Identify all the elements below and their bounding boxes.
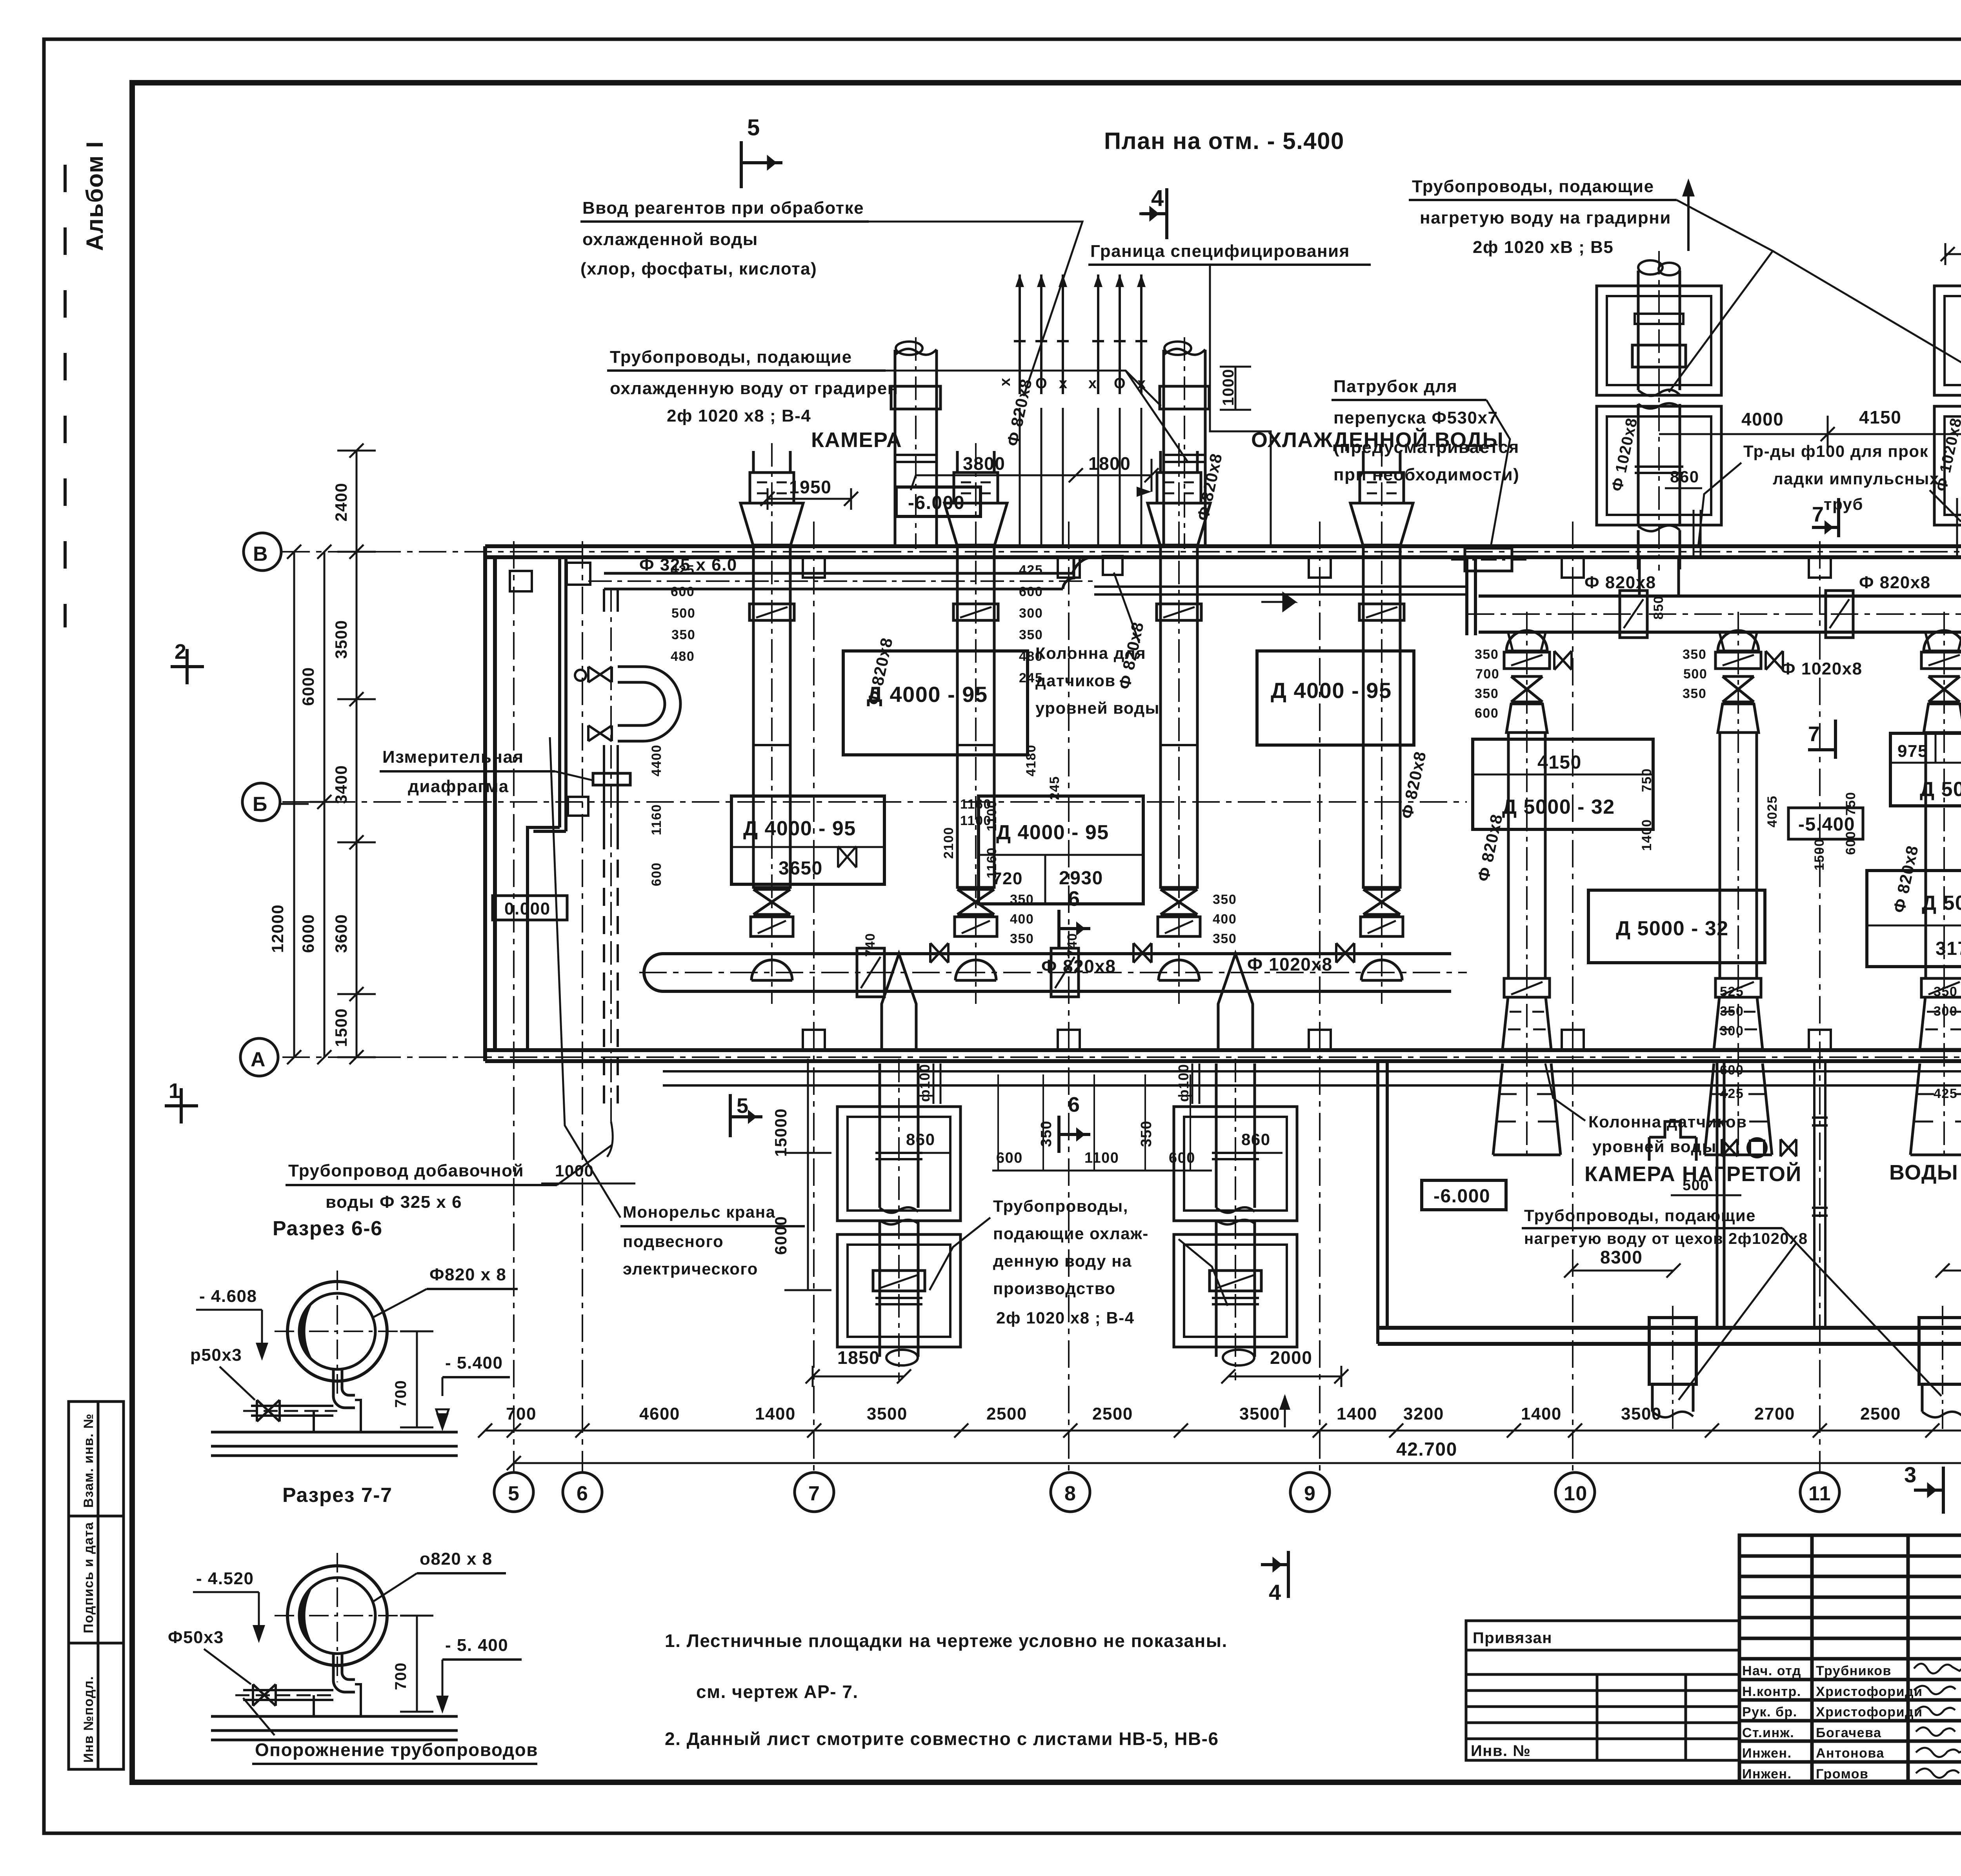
svg-text:- 4.520: - 4.520 [196,1569,254,1588]
column circles [494,1472,1961,1512]
small box on pipe [568,797,588,816]
svg-text:2. Данный лист смотрите сов: 2. Данный лист смотрите совместно с лист… [665,1729,1219,1749]
overflow pipe below bottom wall [663,1071,1961,1085]
svg-text:600: 600 [996,1150,1023,1166]
svg-text:Д 5000 - 32: Д 5000 - 32 [1502,796,1615,818]
svg-text:Ф 1020х8: Ф 1020х8 [1247,954,1333,974]
flow arrow top cold [1261,593,1295,611]
svg-text:6: 6 [1068,887,1081,911]
svg-text:600: 600 [1169,1150,1195,1166]
svg-text:х: х [1137,375,1146,392]
pump 3 [1148,451,1210,980]
svg-text:6: 6 [577,1482,588,1505]
shop pipe stub 1 [1649,1318,1696,1417]
svg-text:3175: 3175 [1936,938,1961,959]
svg-text:х: х [1059,375,1068,392]
svg-text:5: 5 [508,1482,520,1505]
GRID CENTERLINES [282,522,1961,1472]
vertical dim 15000 6000 left of risers [784,1059,831,1290]
svg-text:1. Лестничные площадки на: 1. Лестничные площадки на чертеже условн… [665,1631,1228,1651]
LEFT DIMENSION CHAINS [294,451,357,1057]
svg-text:350: 350 [1683,686,1706,701]
svg-text:Ф 1020х8: Ф 1020х8 [1781,659,1863,678]
pump R3 [1910,631,1961,1155]
svg-text:6: 6 [1068,1093,1081,1116]
section 6-6 floor [211,1432,458,1456]
riser assembly A [1597,260,1721,569]
svg-text:Н.контр.: Н.контр. [1742,1684,1801,1699]
svg-text:1800: 1800 [1088,453,1131,474]
svg-text:1500: 1500 [1812,838,1827,871]
pump 1 [740,451,803,980]
elevation box -5.400 [1788,808,1863,839]
valves on loop [588,667,612,682]
suction manifold hot hall [1479,596,1961,632]
svg-text:-6.000: -6.000 [1433,1186,1490,1207]
svg-text:860: 860 [1670,467,1699,486]
svg-text:Ф 820х8: Ф 820х8 [1041,956,1116,976]
svg-text:1850: 1850 [837,1347,880,1368]
svg-text:4025: 4025 [1765,795,1780,827]
tee from top boxpipes [1639,557,1961,596]
wall pilasters bottom [803,1030,1961,1050]
svg-text:Д 4000 - 95: Д 4000 - 95 [996,821,1109,844]
left chamber inner wall [528,557,566,1050]
svg-text:4: 4 [1269,1580,1282,1605]
pump centerlines hot [1527,612,1961,1161]
svg-text:Ст.инж.: Ст.инж. [1742,1725,1794,1740]
svg-text:5: 5 [747,115,760,140]
leader truboprovody cold [886,371,1188,463]
svg-text:ОХЛАЖДЕННОЙ ВОДЫ: ОХЛАЖДЕННОЙ ВОДЫ [1251,428,1504,452]
svg-text:ф100: ф100 [1175,1063,1192,1102]
svg-text:Граница специфицирования: Граница специфицирования [1090,242,1350,261]
elevation box -6.000 top [896,487,980,516]
riser assembly B [1934,260,1961,569]
svg-text:8: 8 [1064,1482,1076,1505]
sensors column square [1103,556,1122,575]
svg-text:350: 350 [1934,984,1957,999]
svg-text:Д 5000 - 32: Д 5000 - 32 [1920,778,1961,801]
svg-text:Трубопроводы, подающие: Трубопроводы, подающие [1412,177,1654,196]
reagent tee marks [1014,340,1147,342]
svg-text:1400: 1400 [1521,1404,1562,1423]
section 7-7 support block [314,1684,361,1716]
F325 pipe top left [604,557,1094,589]
svg-text:4400: 4400 [649,744,664,776]
svg-text:2400: 2400 [332,483,350,522]
svg-text:500: 500 [1683,667,1707,682]
svg-text:Нач. отд: Нач. отд [1742,1663,1801,1678]
svg-text:Громов: Громов [1816,1767,1868,1781]
svg-text:(хлор, фосфаты, кислота): (хлор, фосфаты, кислота) [580,259,817,278]
chamber divider top middle [1467,557,1475,635]
impulse tubes [1694,498,1961,557]
svg-text:350: 350 [1010,892,1034,907]
svg-text:датчиков: датчиков [1035,671,1116,690]
svg-text:1160: 1160 [649,804,664,835]
svg-text:Богачева: Богачева [1816,1725,1881,1740]
svg-text:1000: 1000 [555,1162,594,1180]
svg-text:Трубопроводы, подающие: Трубопроводы, подающие [1524,1206,1756,1225]
svg-text:Привязан: Привязан [1473,1629,1552,1647]
svg-text:О: О [1114,375,1126,392]
svg-text:350: 350 [1475,647,1499,662]
svg-text:3400: 3400 [332,765,350,804]
svg-text:2ф 1020 х8 ; В-4: 2ф 1020 х8 ; В-4 [996,1309,1135,1327]
svg-text:3500: 3500 [867,1404,908,1423]
svg-text:Ф820 х 8: Ф820 х 8 [429,1265,506,1284]
svg-text:350: 350 [1038,1120,1055,1147]
dash marks on outer left border [64,165,67,627]
svg-text:400: 400 [1213,912,1237,927]
svg-text:2100: 2100 [941,827,956,859]
svg-text:Рук. бр.: Рук. бр. [1742,1705,1797,1720]
svg-text:1100: 1100 [1084,1150,1119,1166]
lower chamber bottom wall [1378,1328,1961,1344]
svg-text:Б: Б [253,793,268,816]
svg-text:700: 700 [392,1662,409,1690]
pump base box C [731,796,884,884]
riser centerlines [1659,251,1961,571]
svg-text:Трубопроводы,: Трубопроводы, [993,1197,1128,1215]
svg-text:4600: 4600 [639,1404,680,1423]
pump 2 [944,451,1007,980]
svg-text:1: 1 [169,1079,181,1103]
leader vvod [869,222,1082,396]
pump 4 [1350,451,1413,980]
svg-text:Измерительная: Измерительная [382,747,524,767]
svg-text:3500: 3500 [1239,1404,1280,1423]
svg-text:525: 525 [1720,984,1744,999]
svg-text:см. чертеж АР- 7.: см. чертеж АР- 7. [696,1681,859,1702]
svg-text:- 4.608: - 4.608 [199,1287,257,1306]
svg-text:Ф50х3: Ф50х3 [168,1628,224,1647]
pump R1 [1493,631,1561,1155]
svg-text:350: 350 [1138,1120,1155,1147]
leaders hot gradirni [1669,200,1961,392]
svg-text:350: 350 [1010,931,1034,946]
svg-text:7: 7 [808,1482,820,1505]
section 6-6 pipe circle [287,1282,387,1381]
spec boundary line [1210,265,1271,544]
make-up water vertical pipe [604,589,618,612]
svg-text:1950: 1950 [789,477,831,497]
svg-text:Ф 325 х 6.0: Ф 325 х 6.0 [639,555,737,574]
svg-text:700: 700 [392,1380,409,1408]
svg-text:3800: 3800 [963,453,1005,474]
svg-text:Трубопроводы, подающие: Трубопроводы, подающие [610,347,852,367]
svg-text:ф100: ф100 [917,1063,933,1102]
svg-text:Ввод реагентов при обработке: Ввод реагентов при обработке [582,198,864,218]
svg-text:600: 600 [1019,584,1043,599]
manifold reducers at pumps [1508,632,1961,651]
production riser 1 [837,1063,960,1365]
wall pilasters top [803,557,1961,578]
level sensor column [1812,1061,1828,1328]
base box G [1588,890,1765,963]
svg-text:уровней воды: уровней воды [1592,1137,1717,1156]
patrubok fitting [1465,548,1512,571]
svg-text:А: А [251,1048,266,1071]
svg-text:электрического: электрического [623,1260,758,1278]
svg-text:1160: 1160 [984,847,999,878]
svg-text:труб: труб [1824,495,1863,513]
signature rows [1742,1663,1923,1781]
bottom wall [485,1050,1961,1061]
cold inlet stub 2 [1160,342,1209,546]
svg-text:Д 4000 - 95: Д 4000 - 95 [743,817,856,840]
svg-text:850: 850 [1651,596,1666,620]
inner wall line under top wall [1094,587,1467,594]
svg-text:740: 740 [863,933,878,957]
svg-text:х: х [1088,375,1097,392]
small bowtie valves at pumps [930,943,1354,963]
svg-text:7: 7 [1812,503,1825,526]
svg-text:2930: 2930 [1059,868,1103,889]
svg-text:740: 740 [1065,933,1080,957]
svg-text:2000: 2000 [1270,1347,1312,1368]
measuring diaphragm on make-up pipe [593,773,630,785]
pump base box A [843,651,1028,755]
svg-text:Инв. №: Инв. № [1471,1742,1531,1760]
svg-text:Опорожнение трубопроводов: Опорожнение трубопроводов [255,1740,538,1760]
svg-text:1400: 1400 [755,1404,796,1423]
svg-text:2500: 2500 [986,1404,1027,1423]
small dim stack near pump3 top [984,563,1043,878]
base box F [1890,733,1961,806]
svg-text:1160: 1160 [960,797,991,812]
svg-text:2ф 1020 хВ ; В5: 2ф 1020 хВ ; В5 [1473,238,1614,257]
REAGENT PIPES [1020,274,1141,394]
pilaster boxes near F325 [567,563,590,585]
small dims at valves bottom [863,776,1237,957]
svg-text:КАМЕРА НАГРЕТОЙ: КАМЕРА НАГРЕТОЙ [1584,1162,1802,1186]
svg-text:1100: 1100 [960,813,991,828]
svg-text:750: 750 [1843,792,1858,816]
svg-text:300: 300 [1019,606,1043,621]
svg-text:при необходимости): при необходимости) [1333,465,1519,484]
dim 1000 right of stub2 [1220,367,1251,410]
svg-text:производство: производство [993,1279,1116,1298]
svg-text:Ф 820х8: Ф 820х8 [1859,573,1931,592]
svg-text:480: 480 [1019,649,1043,664]
section 7-7 drain pipe and valve [243,1690,333,1700]
svg-text:350: 350 [1213,931,1237,946]
reagent pipes drop to wall [1020,408,1141,546]
svg-text:4150: 4150 [1537,752,1582,773]
suction valve pump2 [838,846,857,867]
svg-text:перепуска Ф530х7: перепуска Ф530х7 [1333,408,1498,427]
svg-text:охлажденной воды: охлажденной воды [582,230,758,249]
production risers centerlines [899,1059,1235,1380]
svg-text:6000: 6000 [299,914,317,953]
makeup pipe to plan leader [607,1122,613,1157]
svg-text:600: 600 [649,862,664,886]
svg-text:Взам. инв. №: Взам. инв. № [81,1413,96,1508]
svg-text:350: 350 [1683,647,1706,662]
svg-text:245: 245 [1047,776,1062,800]
svg-text:3: 3 [1904,1462,1917,1487]
svg-text:Инжен.: Инжен. [1742,1746,1792,1761]
row circle V [244,533,281,571]
svg-text:7: 7 [1808,722,1821,746]
svg-text:воды Ф 325 х 6: воды Ф 325 х 6 [326,1192,462,1212]
section 6-6 drain pipe and valve [251,1406,333,1416]
dim row 600 350 1100 350 600 [996,1120,1195,1166]
svg-text:-6.000: -6.000 [908,493,965,513]
svg-text:600: 600 [1843,831,1858,855]
svg-text:Инв №подл.: Инв №подл. [81,1676,96,1763]
svg-text:425: 425 [1934,1086,1957,1101]
lower chamber left wall [1378,1061,1387,1344]
tee arrow to production pipe 1 [882,954,916,1050]
svg-text:10: 10 [1564,1482,1588,1505]
svg-text:11: 11 [1808,1482,1831,1505]
svg-text:Ф 820х8: Ф 820х8 [1584,573,1656,592]
svg-text:15000: 15000 [771,1108,790,1157]
svg-text:Д 5000 - 32: Д 5000 - 32 [1922,892,1961,914]
svg-text:750: 750 [1639,768,1654,792]
svg-text:План на отм. - 5.400: План на отм. - 5.400 [1104,128,1344,154]
small dim stacks hot hall [1475,596,1961,1101]
svg-text:Монорельс крана: Монорельс крана [623,1203,775,1221]
svg-text:Разрез 7-7: Разрез 7-7 [282,1484,393,1507]
svg-text:Альбом I: Альбом I [82,141,108,251]
elevation box -6.000 bottom [1422,1180,1506,1210]
f100 impulse at prod risers [933,1063,1199,1104]
svg-text:600: 600 [671,584,695,599]
PRIVYAZAN TABLE [1466,1621,1739,1760]
svg-text:425: 425 [1019,563,1043,578]
svg-text:42.700: 42.700 [1396,1439,1457,1460]
svg-text:400: 400 [1010,912,1034,927]
manifold ring bands [857,948,884,997]
pump base box D [979,796,1143,904]
svg-text:6000: 6000 [299,667,317,706]
svg-text:2500: 2500 [1092,1404,1133,1423]
svg-text:975: 975 [1897,742,1928,761]
svg-text:860: 860 [1241,1130,1271,1149]
svg-text:подающие охлаж-: подающие охлаж- [993,1224,1149,1243]
discharge manifold cold hall [644,954,1451,991]
row circle B [242,783,280,821]
svg-text:- 5. 400: - 5. 400 [445,1636,508,1655]
section 6-6 support block [314,1400,361,1431]
svg-text:Инжен.: Инжен. [1742,1767,1792,1781]
cold inlet stub 1 [891,342,940,546]
row circle A [240,1038,278,1076]
svg-text:4180: 4180 [1024,744,1039,776]
svg-text:охлажденную воду от градирен: охлажденную воду от градирен [610,379,899,398]
svg-text:диафрагма: диафрагма [408,777,509,796]
svg-text:уровней воды: уровней воды [1035,699,1160,717]
svg-text:КАМЕРА: КАМЕРА [811,428,902,452]
elevation box 0.000 left [493,896,567,920]
svg-text:1500: 1500 [332,1008,350,1047]
up arrows above risers [1687,188,1690,251]
svg-text:Антонова: Антонова [1816,1746,1885,1761]
left margin stamp boxes [69,1402,124,1769]
svg-text:3650: 3650 [779,858,823,879]
svg-text:Разрез 6-6: Разрез 6-6 [273,1217,383,1240]
manifold ring bands hot [1620,591,1647,638]
svg-text:350: 350 [1720,1004,1744,1019]
svg-text:4: 4 [1151,185,1164,211]
svg-text:500: 500 [671,606,695,621]
svg-text:350: 350 [1213,892,1237,907]
svg-text:ВОДЫ: ВОДЫ [1889,1161,1958,1184]
svg-text:5: 5 [737,1094,749,1118]
svg-text:480: 480 [671,649,695,664]
svg-text:300: 300 [1934,1004,1957,1019]
svg-text:3200: 3200 [1403,1404,1444,1423]
tee arrow to production pipe 2 [1218,954,1253,1050]
svg-text:нагретую воду от цехов 2ф1020х: нагретую воду от цехов 2ф1020х8 [1524,1230,1808,1247]
production riser 2 [1174,1063,1297,1365]
svg-text:Трубопровод добавочной: Трубопровод добавочной [288,1161,524,1180]
BOTTOM DIMENSION CHAINS [485,1430,1961,1432]
svg-text:6000: 6000 [771,1216,790,1255]
svg-text:О: О [1035,375,1048,392]
svg-text:1400: 1400 [1337,1404,1377,1423]
bottom chamber fittings at wall [1649,1122,1696,1161]
svg-text:3600: 3600 [332,914,350,953]
chamber divider wall mid [1717,1061,1724,1328]
svg-text:2ф 1020 х8 ; В-4: 2ф 1020 х8 ; В-4 [667,406,811,425]
svg-text:3500: 3500 [332,620,350,659]
svg-text:245: 245 [1019,671,1043,685]
svg-text:4000: 4000 [1741,409,1784,429]
svg-text:9: 9 [1304,1482,1316,1505]
svg-text:350: 350 [1475,686,1499,701]
section 6-6 drain elbow [333,1369,355,1408]
base box H [1867,871,1961,967]
TITLE BLOCK [1739,1535,1961,1782]
section 7-7 drain elbow [333,1654,355,1692]
svg-text:350: 350 [1019,627,1043,642]
svg-text:350: 350 [671,627,695,642]
pump centerlines cold [772,443,1382,1004]
svg-text:2: 2 [175,640,187,664]
svg-text:700: 700 [506,1404,537,1423]
svg-text:700: 700 [1475,667,1499,682]
svg-text:Подпись и дата: Подпись и дата [81,1522,96,1633]
pump base box B [1257,651,1414,745]
svg-text:р50х3: р50х3 [190,1345,242,1365]
svg-text:12000: 12000 [268,904,287,953]
svg-text:Христофориди: Христофориди [1816,1705,1923,1720]
svg-text:Христофориди: Христофориди [1816,1684,1923,1699]
shop pipe stub 2 [1919,1318,1961,1417]
top wall [485,546,1961,557]
svg-text:подвесного: подвесного [623,1232,724,1251]
svg-text:- 5.400: - 5.400 [445,1353,503,1372]
small bowtie valves hot [1554,651,1961,670]
svg-text:2700: 2700 [1754,1404,1795,1423]
svg-text:В: В [253,543,268,565]
svg-text:4150: 4150 [1859,407,1901,427]
svg-text:х: х [997,377,1013,386]
svg-text:2500: 2500 [1860,1404,1901,1423]
pump R2 [1705,631,1772,1155]
svg-text:860: 860 [906,1130,935,1149]
svg-text:Колонна для: Колонна для [1035,644,1146,662]
svg-text:0.000: 0.000 [504,899,551,918]
section 7-7 floor [211,1716,458,1740]
svg-text:1000: 1000 [1220,369,1237,406]
expansion loop on make-up pipe [618,667,680,741]
